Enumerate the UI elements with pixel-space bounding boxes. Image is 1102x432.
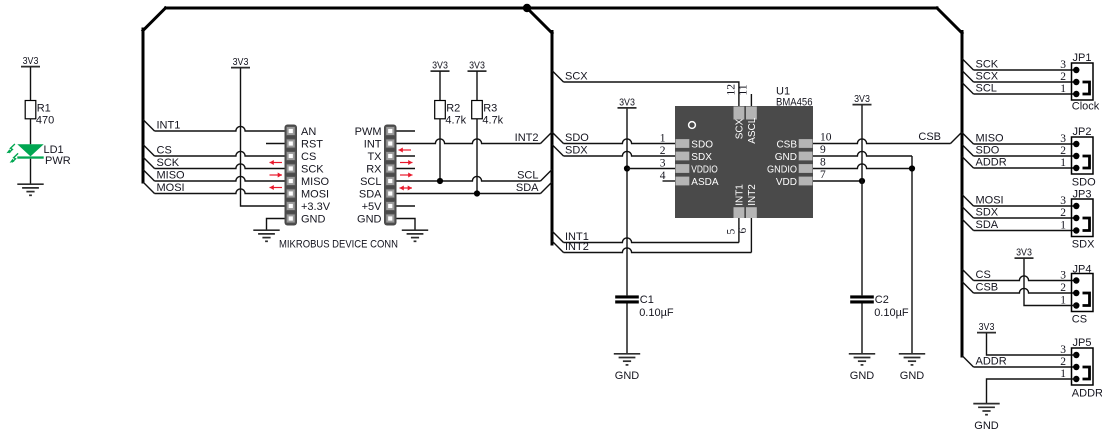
arrow (INT in) <box>399 148 412 153</box>
wire MOSI (JP3) <box>974 205 1077 207</box>
svg-text:2: 2 <box>1060 207 1066 219</box>
svg-text:ADDR: ADDR <box>976 157 1007 169</box>
bus entry ADDR (JP5) <box>962 356 974 368</box>
bus entry SDO (JP2) <box>962 145 974 157</box>
bus top horizontal <box>166 7 938 10</box>
bus entry SDX (JP3) <box>962 207 974 219</box>
svg-text:SDX: SDX <box>1072 239 1095 251</box>
svg-text:5: 5 <box>726 229 738 235</box>
wire INT1 <box>155 126 285 131</box>
bus right vertical <box>961 32 964 357</box>
power flag 3V3 (R3) <box>468 61 487 72</box>
junction VDD <box>859 178 865 184</box>
capacitor C2 <box>850 294 909 319</box>
wire C2 to gnd <box>861 304 863 354</box>
svg-text:3V3: 3V3 <box>469 61 485 72</box>
wire PWM stub <box>397 130 416 132</box>
svg-text:VDDIO: VDDIO <box>691 165 718 176</box>
svg-text:1: 1 <box>1060 83 1066 95</box>
svg-text:INT1: INT1 <box>734 184 745 206</box>
wire GND pin9 <box>813 151 912 353</box>
wire RX stub <box>397 168 416 170</box>
junction R2-SCL <box>437 178 443 184</box>
wire SDO to pin1 <box>564 139 676 144</box>
svg-text:+3.3V: +3.3V <box>301 201 331 213</box>
svg-text:1: 1 <box>1060 157 1066 169</box>
svg-text:CSB: CSB <box>976 282 999 294</box>
svg-text:SDO: SDO <box>1072 177 1096 189</box>
svg-text:8: 8 <box>820 157 826 169</box>
svg-text:SDO: SDO <box>691 140 713 151</box>
ground (mikrobus left) <box>253 230 279 241</box>
svg-text:2: 2 <box>660 145 666 157</box>
svg-text:ASDA: ASDA <box>691 177 719 188</box>
bus mid vertical <box>551 32 554 245</box>
svg-text:GND: GND <box>974 420 999 432</box>
svg-text:RX: RX <box>366 164 382 176</box>
wire ADDR (JP2) <box>974 167 1077 169</box>
svg-text:6: 6 <box>737 228 749 234</box>
svg-text:3: 3 <box>1060 195 1066 207</box>
bus entry CS (JP4) <box>962 269 974 281</box>
svg-text:CS: CS <box>976 269 991 281</box>
svg-text:3V3: 3V3 <box>23 56 39 67</box>
bus entry SCL (left) <box>541 170 553 182</box>
svg-text:INT1: INT1 <box>157 120 181 132</box>
net label SCL <box>517 170 538 182</box>
power flag 3V3 (JP5) <box>977 322 996 333</box>
bus entry SDA (left) <box>541 182 553 194</box>
svg-text:SDO: SDO <box>976 145 1000 157</box>
net label CS (JP4) <box>976 269 991 281</box>
bus mid drop <box>527 8 552 33</box>
wire ADDR (JP5) <box>974 366 1077 368</box>
bus entry MISO <box>143 170 155 182</box>
wire CSB net <box>813 139 951 144</box>
bus entry SCK <box>143 157 155 169</box>
ground (C2) <box>849 354 875 382</box>
op-amp U1 body (BMA456 IC) <box>675 106 813 218</box>
svg-text:C1: C1 <box>640 294 654 306</box>
wire SCL net <box>397 176 541 181</box>
label Clock (JP1) <box>1072 101 1100 113</box>
connector JP1 <box>1060 52 1093 100</box>
svg-text:R2: R2 <box>446 102 460 114</box>
svg-text:CS: CS <box>301 151 316 163</box>
svg-text:GND: GND <box>301 214 326 226</box>
net label MOSI <box>157 182 185 194</box>
net label CS <box>157 145 172 157</box>
bus entry SCK (JP1) <box>962 59 974 71</box>
net label ADDR (JP5) <box>976 356 1007 368</box>
power flag 3V3 (LED branch) <box>21 56 40 67</box>
bus top-right corner <box>937 8 962 33</box>
bus entry SDO <box>552 132 564 144</box>
net label MISO (JP2) <box>976 133 1005 145</box>
bus entry INT2 (bottom) <box>552 241 564 253</box>
connector JP5 <box>1060 337 1093 385</box>
bus left vertical <box>142 29 145 182</box>
svg-text:SCX: SCX <box>565 71 588 83</box>
net label SCX (JP1) <box>976 71 999 83</box>
net label SDX (JP3) <box>976 207 999 219</box>
bus entry SCL (JP1) <box>962 83 974 95</box>
svg-text:MISO: MISO <box>976 133 1005 145</box>
svg-text:ASCL: ASCL <box>747 117 758 144</box>
bus entry CS <box>143 145 155 157</box>
svg-text:SCL: SCL <box>976 83 997 95</box>
wire TX stub <box>397 155 416 157</box>
wire 3V3 to JP5 pin3 <box>987 333 1077 355</box>
svg-text:3V3: 3V3 <box>979 322 995 333</box>
wire INT1 to pin5 <box>564 218 739 243</box>
wire SCX to pin12 <box>564 82 739 106</box>
svg-text:MIKROBUS DEVICE CONN: MIKROBUS DEVICE CONN <box>279 238 398 250</box>
bus entry CSB (JP4) <box>962 282 974 294</box>
svg-text:3V3: 3V3 <box>432 61 448 72</box>
pin numbers U1 <box>660 84 832 235</box>
svg-text:ADDR: ADDR <box>976 356 1007 368</box>
svg-text:7: 7 <box>820 169 826 181</box>
wire CS (JP4) <box>974 276 1077 281</box>
power flag 3V3 (R2) <box>431 61 450 72</box>
wire SCL (JP1) <box>974 93 1077 95</box>
svg-text:2: 2 <box>1060 356 1066 368</box>
wire RST stub <box>266 143 285 145</box>
svg-text:3V3: 3V3 <box>854 94 870 105</box>
svg-text:JP1: JP1 <box>1073 52 1092 64</box>
bus entry INT2 (left) <box>541 132 553 144</box>
svg-text:+5V: +5V <box>362 201 383 213</box>
wire INT2 to pin6 <box>564 218 752 253</box>
svg-text:JP5: JP5 <box>1073 337 1092 349</box>
connector JP3 <box>1060 189 1093 237</box>
wire ASDA stub pin4 <box>663 180 676 182</box>
svg-text:9: 9 <box>820 144 826 156</box>
junction R3-SDA <box>474 190 480 196</box>
label ADDR (JP5) <box>1072 388 1102 400</box>
bus entry SCX <box>552 71 564 83</box>
ground (LED) <box>17 184 43 195</box>
wire SCK (JP1) <box>974 69 1077 71</box>
power flag 3V3 (VDDIO) <box>618 97 637 108</box>
svg-text:CS: CS <box>157 145 172 157</box>
svg-text:0.10µF: 0.10µF <box>874 307 909 319</box>
net label CSB (JP4) <box>976 282 999 294</box>
net label INT2 <box>515 132 539 144</box>
wire MOSI <box>155 189 285 194</box>
svg-text:MOSI: MOSI <box>976 195 1004 207</box>
svg-text:SDA: SDA <box>976 219 999 231</box>
svg-text:CSB: CSB <box>918 131 941 143</box>
junction GNDIO <box>909 165 915 171</box>
svg-text:R3: R3 <box>483 102 497 114</box>
svg-text:VDD: VDD <box>776 177 797 188</box>
svg-text:12: 12 <box>726 84 738 96</box>
wire C1 to gnd <box>626 304 628 354</box>
power flag 3V3 (VDD) <box>853 94 872 105</box>
power flag 3V3 (mikrobus) <box>231 57 250 68</box>
svg-text:SCK: SCK <box>301 164 324 176</box>
wire GNDIO pin8 <box>813 164 912 169</box>
wire pin11 stub <box>750 94 752 106</box>
svg-text:2: 2 <box>1060 145 1066 157</box>
wire SDA net <box>397 193 541 195</box>
connector mikrobus right header <box>355 125 397 226</box>
wire right header GND <box>397 219 416 231</box>
svg-text:4.7k: 4.7k <box>445 115 466 127</box>
net label SCX <box>565 71 588 83</box>
power flag 3V3 (JP4) <box>1015 248 1034 259</box>
wire SCX (JP1) <box>974 81 1077 83</box>
svg-text:1: 1 <box>1060 368 1066 380</box>
LED LD1 <box>6 144 70 167</box>
bus entry MOSI <box>143 182 155 194</box>
wire VDD pin7 <box>813 180 862 182</box>
bus top-left corner <box>143 8 166 31</box>
wire JP5 pin1 to gnd <box>987 379 1077 404</box>
svg-text:R1: R1 <box>37 102 51 114</box>
net label INT2 (bottom) <box>565 241 589 253</box>
bus entry MOSI (JP3) <box>962 195 974 207</box>
svg-text:11: 11 <box>738 84 750 95</box>
net label SCK <box>157 157 180 169</box>
svg-text:SCL: SCL <box>360 176 381 188</box>
net label ADDR (JP2) <box>976 157 1007 169</box>
wire MISO (JP2) <box>974 143 1077 145</box>
wire SDO (JP2) <box>974 155 1077 157</box>
label SDO (JP2) <box>1072 177 1096 189</box>
svg-text:MISO: MISO <box>301 176 330 188</box>
bus junction dot <box>523 4 531 12</box>
arrow (SDA bidir) <box>400 186 413 191</box>
resistor R3 <box>472 71 504 193</box>
wire +5V stub <box>397 205 416 207</box>
svg-text:MOSI: MOSI <box>157 182 185 194</box>
label CS (JP4) <box>1072 314 1087 326</box>
resistor R1 <box>25 67 54 144</box>
svg-text:GND: GND <box>775 152 797 163</box>
svg-text:ADDR: ADDR <box>1072 388 1102 400</box>
svg-text:SCK: SCK <box>157 157 180 169</box>
net label CSB <box>918 131 941 143</box>
label U1 <box>776 86 790 98</box>
wire <box>30 159 32 185</box>
wire CSB (JP4) <box>974 288 1077 293</box>
svg-text:2: 2 <box>1060 71 1066 83</box>
net label SDA <box>516 182 539 194</box>
bus entry SDX <box>552 145 564 157</box>
svg-text:AN: AN <box>301 126 316 138</box>
svg-text:SCK: SCK <box>976 59 999 71</box>
arrow (CS/SCK in) <box>270 160 283 165</box>
wire MISO <box>155 176 285 181</box>
connector JP2 <box>1060 126 1093 174</box>
wire 3V3 down to C1 <box>626 109 628 296</box>
wire SDX to pin2 <box>564 151 676 156</box>
arrow (MISO out) <box>270 173 283 178</box>
bus entry SCX (JP1) <box>962 71 974 83</box>
svg-text:SDX: SDX <box>691 152 712 163</box>
svg-text:470: 470 <box>36 115 54 127</box>
svg-text:JP3: JP3 <box>1073 189 1092 201</box>
svg-text:CS: CS <box>1072 314 1087 326</box>
svg-text:PWM: PWM <box>355 126 382 138</box>
wire SDX (JP3) <box>974 217 1077 219</box>
wire INT net <box>397 139 541 144</box>
svg-text:Clock: Clock <box>1072 101 1100 113</box>
net label MISO <box>157 170 186 182</box>
svg-text:2: 2 <box>1060 282 1066 294</box>
label MIKROBUS DEVICE CONN <box>279 238 398 250</box>
net label SDO <box>565 132 589 144</box>
wire 3V3 to JP4 pin1 <box>1024 259 1076 306</box>
svg-text:GND: GND <box>900 370 925 382</box>
resistor R2 <box>435 71 467 181</box>
net label SCK (JP1) <box>976 59 999 71</box>
bus entry CSB <box>951 132 963 144</box>
arrow (MOSI in) <box>270 185 283 190</box>
bus entry INT1 <box>143 120 155 132</box>
wire SDA (JP3) <box>974 230 1077 232</box>
svg-text:3: 3 <box>1060 270 1066 282</box>
ground (mikrobus right) <box>402 230 428 241</box>
svg-text:C2: C2 <box>875 294 889 306</box>
svg-text:CSB: CSB <box>776 140 797 151</box>
bus entry MISO (JP2) <box>962 133 974 145</box>
wire left header GND <box>267 219 285 231</box>
svg-text:SDX: SDX <box>976 207 999 219</box>
label BMA456 <box>776 96 813 108</box>
svg-text:SDO: SDO <box>565 132 589 144</box>
svg-text:TX: TX <box>367 151 382 163</box>
ground (GNDIO) <box>899 354 925 382</box>
arrow (RX out) <box>400 173 413 178</box>
bus entry ADDR (JP2) <box>962 157 974 169</box>
net label SDX <box>565 145 588 157</box>
svg-text:3: 3 <box>660 158 666 170</box>
svg-text:PWR: PWR <box>45 155 71 167</box>
ground (JP5) <box>973 404 999 432</box>
svg-text:4: 4 <box>660 170 666 182</box>
bus entry INT1 (bottom) <box>552 231 564 243</box>
net label INT1 <box>157 120 181 132</box>
svg-text:BMA456: BMA456 <box>776 96 813 108</box>
svg-text:0.10µF: 0.10µF <box>639 307 674 319</box>
svg-text:GNDIO: GNDIO <box>767 165 797 176</box>
svg-text:3: 3 <box>1060 133 1066 145</box>
bus entry SDA (JP3) <box>962 219 974 231</box>
svg-text:INT2: INT2 <box>515 132 539 144</box>
label SDX (JP3) <box>1072 239 1095 251</box>
svg-text:JP2: JP2 <box>1073 126 1092 138</box>
net label SCL (JP1) <box>976 83 997 95</box>
svg-text:3: 3 <box>1060 344 1066 356</box>
capacitor C1 <box>615 294 674 319</box>
svg-text:MOSI: MOSI <box>301 189 329 201</box>
net label INT1 (bottom) <box>565 231 589 243</box>
wire VDDIO pin3 <box>627 168 675 170</box>
net label SDO (JP2) <box>976 145 1000 157</box>
svg-text:GND: GND <box>357 214 382 226</box>
svg-text:SDX: SDX <box>565 145 588 157</box>
svg-text:1: 1 <box>1060 295 1066 307</box>
svg-text:3V3: 3V3 <box>619 97 635 108</box>
junction VDDIO <box>624 165 630 171</box>
svg-text:SCX: SCX <box>976 71 999 83</box>
svg-text:RST: RST <box>301 139 323 151</box>
svg-text:3: 3 <box>1060 59 1066 71</box>
wire CS <box>155 151 285 156</box>
svg-text:4.7k: 4.7k <box>482 115 503 127</box>
ground (C1) <box>614 354 640 382</box>
svg-text:JP4: JP4 <box>1073 264 1092 276</box>
svg-text:GND: GND <box>850 370 875 382</box>
svg-text:INT: INT <box>364 139 382 151</box>
connector JP4 <box>1060 264 1093 312</box>
svg-text:1: 1 <box>1060 220 1066 232</box>
net label SDA (JP3) <box>976 219 999 231</box>
svg-text:1: 1 <box>660 133 666 145</box>
arrow (TX out) <box>400 160 413 165</box>
svg-text:GND: GND <box>615 370 640 382</box>
wire 3V3 down to C2 <box>861 105 863 295</box>
svg-text:INT2: INT2 <box>565 241 589 253</box>
svg-text:INT2: INT2 <box>747 184 758 206</box>
svg-text:3V3: 3V3 <box>233 57 249 68</box>
net label MOSI (JP3) <box>976 195 1004 207</box>
svg-text:SDA: SDA <box>359 189 382 201</box>
svg-text:SCL: SCL <box>517 170 538 182</box>
svg-text:MISO: MISO <box>157 170 186 182</box>
svg-text:SDA: SDA <box>516 182 539 194</box>
svg-text:SCX: SCX <box>734 118 745 139</box>
wire 3V3 to +3.3V pin <box>241 68 285 206</box>
wire SCK <box>155 164 285 169</box>
svg-text:3V3: 3V3 <box>1016 248 1032 259</box>
connector mikrobus left header <box>285 125 331 226</box>
svg-text:10: 10 <box>820 132 832 144</box>
